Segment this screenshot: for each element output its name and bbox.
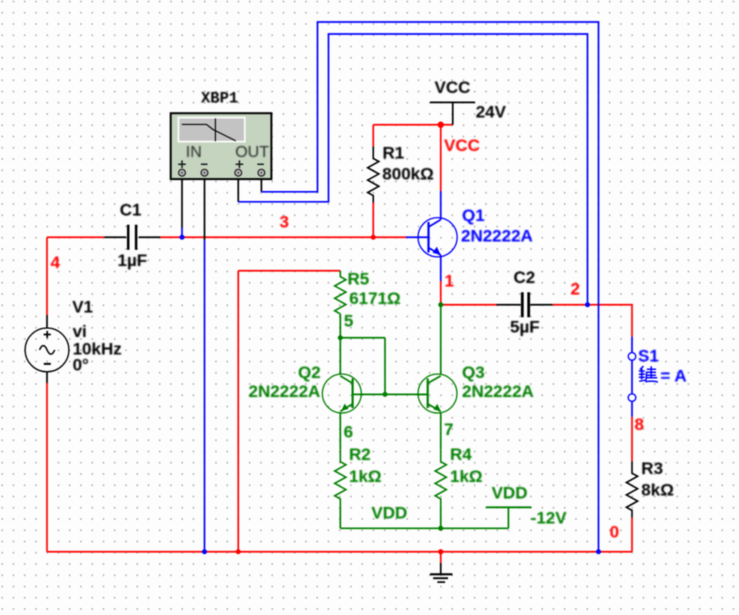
resistor R1 (368, 125, 434, 238)
svg-text:5µF: 5µF (510, 317, 540, 336)
wire net0 R3 bottom (631, 518, 633, 552)
svg-text:VCC: VCC (435, 78, 471, 97)
wire net7 Q3 emitter to R4 (440, 412, 442, 449)
svg-text:XBP1: XBP1 (201, 90, 238, 108)
wire XBP1 IN- blue to ground bus (204, 240, 206, 552)
wire net2 C2 to S1 corner (553, 305, 632, 337)
resistor R5 (335, 270, 401, 314)
junction net0 OUT- dot (596, 549, 601, 554)
svg-text:C1: C1 (120, 201, 142, 220)
svg-text:Q3: Q3 (462, 363, 485, 382)
wire XBP1 IN+ lead black (181, 179, 183, 227)
label S1 key glyph 键 (639, 366, 658, 382)
svg-text:Q2: Q2 (298, 363, 321, 382)
svg-text:6171Ω: 6171Ω (349, 289, 400, 308)
wire net4 V1 top vertical (46, 237, 48, 315)
junction node1 dot (438, 302, 443, 307)
junction net3 R1 dot (371, 235, 376, 240)
svg-text:2: 2 (571, 280, 580, 299)
svg-text:C2: C2 (514, 268, 536, 287)
svg-text:2N2222A: 2N2222A (462, 382, 534, 401)
wire net5 diode connection vertical (384, 338, 386, 395)
resistor R2 (335, 445, 382, 506)
switch S1 (628, 337, 686, 417)
svg-text:1kΩ: 1kΩ (349, 467, 382, 486)
wire net6 Q2 emitter to R2 (339, 412, 341, 449)
wire net4 horizontal to C1 (47, 236, 104, 238)
svg-text:R3: R3 (641, 459, 663, 478)
power VCC symbol 24V (430, 78, 507, 125)
svg-text:V1: V1 (72, 297, 93, 316)
wire net1 node1 down to Q3 collector (440, 305, 442, 375)
svg-text:R5: R5 (348, 270, 370, 289)
wire netVCC R1 top horizontal (373, 124, 441, 126)
wire netVDD bus (340, 527, 508, 529)
junction netVCC dot (438, 122, 444, 128)
svg-text:S1: S1 (638, 346, 659, 365)
resistor R4 (435, 445, 482, 506)
svg-text:R2: R2 (349, 445, 371, 464)
wire net0 R5 branch horizontal (238, 270, 340, 272)
transistor Q3 (415, 363, 534, 413)
svg-text:7: 7 (444, 420, 453, 439)
wire net5 diode connection horizontal (340, 337, 385, 339)
wire netVCC down to Q1 collector (440, 125, 442, 191)
capacitor C2 (497, 268, 553, 336)
resistor R3 (626, 459, 673, 518)
transistor Q2 (249, 363, 386, 413)
junction net0 IN- dot (202, 549, 207, 554)
svg-text:3: 3 (280, 213, 289, 232)
wire net1 node1 to C2 (441, 304, 497, 306)
wire net5 R5 bottom to Q2 collector (339, 314, 341, 375)
junction base rail dot (383, 392, 388, 397)
svg-text:VDD: VDD (492, 484, 528, 503)
capacitor C1 (104, 201, 160, 271)
svg-text:R1: R1 (383, 143, 405, 162)
wire netVDD R4 bottom (440, 506, 442, 528)
wire netVDD R2 bottom (339, 506, 341, 528)
svg-text:5: 5 (344, 312, 353, 331)
wire XBP1 IN- lead black (204, 179, 206, 240)
wire net8 S1 to R3 (631, 417, 633, 462)
ground (430, 552, 452, 582)
source V1 (25, 297, 122, 383)
svg-text:-12V: -12V (531, 508, 568, 527)
svg-text:6: 6 (344, 423, 353, 442)
wire XBP1 OUT- lead black (260, 179, 262, 192)
svg-text:1kΩ: 1kΩ (450, 467, 483, 486)
svg-text:OUT: OUT (235, 144, 269, 161)
svg-text:Q1: Q1 (462, 206, 485, 225)
wire XBP1 IN+ lead blue to node3 (181, 228, 183, 238)
svg-text:0: 0 (610, 523, 619, 542)
junction node2 dot (585, 302, 590, 307)
wire net1 Q1 emitter to node1 (440, 281, 442, 305)
power VDD symbol -12V (486, 484, 567, 529)
svg-text:= A: = A (660, 366, 686, 385)
svg-text:R4: R4 (450, 445, 472, 464)
svg-text:VCC: VCC (444, 136, 480, 155)
junction net0 R5 branch dot (236, 549, 241, 554)
transistor Q1 (406, 191, 533, 281)
junction netVDD dot (438, 526, 443, 531)
svg-text:1µF: 1µF (118, 251, 148, 270)
wire net3 C1 to Q1 base (160, 236, 406, 238)
bode plotter XBP1 (171, 90, 272, 180)
svg-text:4: 4 (51, 253, 61, 272)
svg-text:800kΩ: 800kΩ (382, 165, 433, 184)
wire XBP1 OUT- blue loop to ground (261, 22, 598, 552)
svg-text:8: 8 (635, 415, 644, 434)
svg-text:0°: 0° (73, 355, 89, 374)
junction node5 dot (338, 335, 343, 340)
svg-text:2N2222A: 2N2222A (249, 382, 321, 401)
svg-text:8kΩ: 8kΩ (641, 480, 674, 499)
junction node3 IN+ dot (180, 235, 185, 240)
svg-text:VDD: VDD (371, 504, 407, 523)
svg-text:2N2222A: 2N2222A (461, 227, 533, 246)
svg-text:IN: IN (186, 144, 202, 161)
wire net0 R5 branch vertical (237, 271, 239, 552)
svg-text:vi: vi (73, 322, 87, 341)
wire netVCC dot to symbol stem (441, 124, 453, 126)
wire XBP1 OUT+ blue loop to node2 (238, 34, 587, 305)
wire base rail Q2 to Q3 (385, 393, 428, 395)
svg-text:24V: 24V (476, 103, 507, 122)
wire XBP1 OUT+ lead black (237, 179, 239, 202)
junction net0 ground dot (438, 549, 443, 554)
svg-text:1: 1 (445, 272, 454, 291)
wire net0 bottom ground bus (47, 551, 632, 553)
wire net0 V1 bottom vertical (46, 383, 48, 552)
